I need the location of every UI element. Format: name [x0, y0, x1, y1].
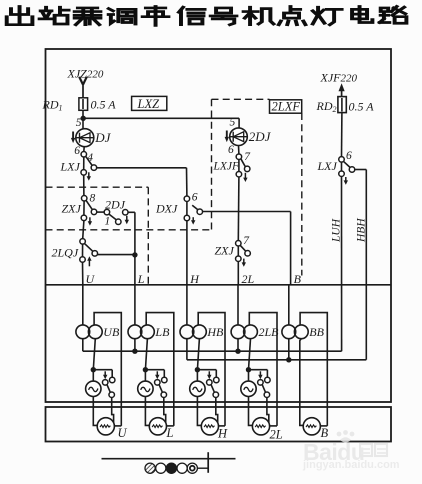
contact ZXJ on 2L column (pin 7) — [236, 241, 242, 247]
transformer HB — [180, 325, 194, 339]
wire HB secondary to lamp node — [197, 339, 199, 370]
svg-text:LB: LB — [154, 325, 170, 339]
relay coil DJ — [71, 129, 94, 147]
svg-text:jingyan.baidu.com: jingyan.baidu.com — [302, 459, 400, 471]
svg-text:L: L — [166, 426, 174, 440]
contact LXJ right (pin 6) — [339, 157, 345, 163]
wire contact to aux lamp H — [216, 397, 218, 423]
wire H bus to transformer HB — [186, 285, 188, 325]
wire LXJ front contact to H column corner — [97, 167, 187, 169]
svg-text:6: 6 — [346, 150, 352, 162]
transformer 2LB — [231, 325, 245, 339]
wire main lamp L to aux lamp — [145, 397, 149, 426]
wire 2LQJ front to L node — [97, 254, 134, 256]
contact LXJ (pin 4) — [81, 152, 87, 158]
wire RD2 to LXJ contact — [341, 113, 343, 157]
svg-text:DJ: DJ — [94, 130, 111, 145]
wire H column from LXJ front corner down — [186, 168, 188, 196]
watermark baidu jingyan — [302, 430, 400, 471]
filament contact H — [197, 369, 216, 371]
svg-text:2DJ: 2DJ — [249, 129, 272, 144]
wire U bus to transformer UB — [82, 285, 84, 325]
transformer LB — [128, 325, 142, 339]
svg-text:2DJ: 2DJ — [105, 198, 126, 212]
wire contact to aux lamp 2L — [267, 397, 269, 423]
svg-text:8: 8 — [90, 193, 96, 205]
transformer BB — [282, 325, 296, 339]
return bus LUH (lower) — [83, 350, 342, 352]
wire UB secondary to lamp node — [93, 339, 95, 370]
wire 2DJ coil to LXJF — [238, 146, 240, 155]
wire DXJ front to B column — [202, 211, 290, 213]
junction node under RD1 — [81, 116, 86, 121]
wire 2DJ right contact to L column — [128, 211, 135, 213]
wire node to DJ coil — [82, 118, 84, 128]
wire L bus to transformer LB — [134, 285, 136, 325]
wire 2LB secondary to lamp node — [249, 339, 251, 370]
wire LB secondary to lamp node — [145, 339, 147, 370]
contact 2LQJ — [80, 239, 86, 245]
arrow up filled (XJF feed) — [339, 83, 345, 91]
wire secondary loop 2LB — [249, 313, 277, 426]
wire main lamp 2L to aux lamp — [249, 397, 253, 426]
2LXF label box — [270, 100, 302, 113]
wire 2LB primary to return bus — [237, 339, 239, 352]
aux lamp B — [303, 418, 320, 435]
svg-text:B: B — [321, 426, 329, 440]
main lamp 2L (AC) — [248, 370, 250, 381]
contact 2DJ (pin 1) — [104, 209, 110, 215]
wire U column to band — [82, 262, 84, 285]
LXZ label box — [132, 96, 167, 110]
svg-text:HB: HB — [206, 325, 224, 339]
svg-text:UB: UB — [103, 325, 120, 339]
svg-text:B: B — [294, 272, 302, 286]
wire LB primary to return bus — [134, 339, 136, 352]
wire fuse to node — [82, 110, 84, 118]
aux lamp 2L — [252, 418, 269, 435]
svg-text:U: U — [118, 426, 128, 440]
svg-text:L: L — [137, 272, 145, 286]
wire LXJ to ZXJ — [83, 175, 85, 196]
svg-text:LXZ: LXZ — [137, 97, 161, 111]
svg-text:5: 5 — [230, 116, 236, 128]
aux lamp U — [97, 418, 114, 435]
svg-text:LXJ: LXJ — [317, 159, 338, 173]
wire main lamp H to aux lamp — [197, 397, 201, 426]
wire secondary loop UB — [94, 313, 121, 426]
wire ZXJ front to 2DJ contact — [97, 211, 105, 213]
contact DXJ (pin 6) — [184, 196, 190, 202]
contact ZXJ (pin 8) — [81, 196, 87, 202]
wire ZXJ back to 2LQJ — [83, 221, 84, 239]
wire aux lamp L right side up — [167, 425, 174, 427]
junction node bus2 B — [286, 357, 291, 362]
title 出站兼调车信号机点灯电路 (hand-drawn strokes) — [7, 6, 407, 25]
wire aux lamp U right side up — [114, 425, 121, 427]
wire BB secondary down to aux lamp B — [300, 339, 303, 426]
svg-text:6: 6 — [228, 144, 234, 156]
junction node bus1 2L — [235, 349, 240, 354]
wire 2L column to band — [237, 261, 239, 285]
arrow up open (XJZ feed) — [79, 77, 83, 85]
wire LXJ front to HBH column — [355, 169, 367, 171]
wire HBH column down — [365, 170, 367, 360]
outer box frame — [46, 49, 392, 402]
fuse RD2 0.5A — [338, 97, 346, 113]
wire aux lamp H right side up — [219, 425, 226, 427]
junction node lamp 2L — [246, 367, 251, 372]
junction node lamp L — [143, 367, 148, 372]
wire LXJF back down 2L column — [237, 177, 240, 241]
svg-text:2LXF: 2LXF — [272, 100, 301, 114]
wire LXZ feed line to 2DJ — [83, 117, 239, 119]
wire secondary loop BB — [300, 313, 327, 426]
wire H column to band — [186, 221, 188, 285]
return bus HBH (lower) — [187, 359, 366, 361]
junction node bus1 L — [132, 349, 137, 354]
svg-text:XJF220: XJF220 — [320, 71, 358, 85]
svg-text:5: 5 — [76, 117, 82, 129]
wire contact to aux lamp L — [164, 397, 166, 423]
main lamp U (AC) — [92, 370, 94, 381]
dashed box 2LXF — [212, 98, 270, 100]
relay coil 2DJ — [225, 128, 248, 146]
svg-text:DXJ: DXJ — [155, 202, 178, 216]
main lamp H (AC) — [196, 370, 198, 381]
wire aux lamp B right side up — [320, 425, 327, 427]
main lamp L (AC) — [144, 370, 146, 381]
junction node lamp U — [91, 367, 96, 372]
wire secondary loop LB — [146, 313, 174, 426]
svg-text:2LQJ: 2LQJ — [52, 246, 79, 260]
svg-text:U: U — [86, 272, 96, 286]
svg-text:LUH: LUH — [331, 218, 343, 243]
wire HB primary to return bus — [186, 339, 188, 360]
wire L column to band — [134, 255, 136, 285]
filament contact 2L — [249, 369, 268, 371]
svg-text:1: 1 — [105, 216, 111, 228]
wire DJ to LXJ contact — [83, 147, 85, 152]
aux lamp H — [201, 418, 218, 435]
wire contact to aux lamp U — [112, 397, 114, 423]
svg-text:BB: BB — [309, 325, 324, 339]
junction node lamp H — [195, 367, 200, 372]
wire LUH column down — [341, 176, 343, 351]
svg-text:ZXJ: ZXJ — [62, 202, 82, 216]
filament contact L — [145, 369, 164, 371]
svg-text:6: 6 — [74, 145, 80, 157]
svg-text:2L: 2L — [242, 272, 255, 286]
svg-text:6: 6 — [192, 192, 198, 204]
wire aux lamp 2L right side up — [270, 425, 277, 427]
svg-text:LXJF: LXJF — [213, 161, 241, 173]
terminal band line — [46, 284, 392, 286]
bottom lamp band box — [46, 407, 392, 442]
svg-text:2L: 2L — [270, 428, 283, 442]
fuse RD1 0.5A — [82, 98, 84, 110]
wire main lamp U to aux lamp — [93, 397, 97, 426]
wire B bus to transformer BB — [288, 285, 290, 325]
svg-text:HBH: HBH — [355, 218, 367, 243]
wire 2L bus to transformer 2LB — [237, 285, 239, 325]
svg-text:H: H — [189, 272, 200, 286]
wire UB primary to return bus — [82, 339, 84, 352]
signal mast line — [102, 458, 236, 460]
svg-text:LXJ: LXJ — [60, 160, 81, 174]
junction node L column — [132, 252, 137, 257]
svg-text:ZXJ: ZXJ — [215, 244, 235, 258]
svg-text:H: H — [217, 427, 228, 441]
filament contact U — [93, 369, 112, 371]
transformer UB — [76, 325, 90, 339]
contact LXJF (pin 7) — [236, 154, 242, 160]
wire secondary loop HB — [198, 313, 225, 426]
signal head lamps — [145, 452, 208, 473]
svg-text:0.5 A: 0.5 A — [349, 100, 375, 114]
svg-text:0.5 A: 0.5 A — [91, 97, 117, 111]
dashed box left (contact group) — [46, 186, 149, 188]
aux lamp L — [149, 418, 166, 435]
wire BB primary to return bus — [288, 339, 290, 360]
svg-text:2LB: 2LB — [259, 325, 280, 339]
